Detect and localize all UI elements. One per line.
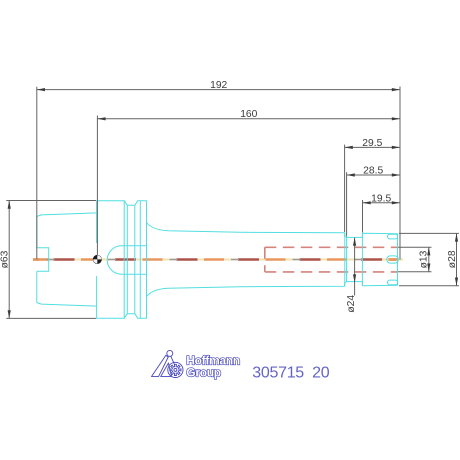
svg-text:305715 20: 305715 20	[252, 364, 329, 381]
svg-text:ø28: ø28	[447, 250, 458, 268]
svg-text:28.5: 28.5	[363, 166, 383, 177]
svg-text:Group: Group	[186, 365, 221, 379]
svg-text:ø63: ø63	[0, 250, 10, 268]
svg-text:160: 160	[240, 109, 257, 120]
svg-text:29.5: 29.5	[362, 138, 382, 149]
svg-text:19.5: 19.5	[371, 193, 391, 204]
svg-text:ø13: ø13	[419, 250, 430, 268]
svg-text:ø24: ø24	[346, 295, 357, 313]
svg-text:192: 192	[210, 80, 227, 91]
